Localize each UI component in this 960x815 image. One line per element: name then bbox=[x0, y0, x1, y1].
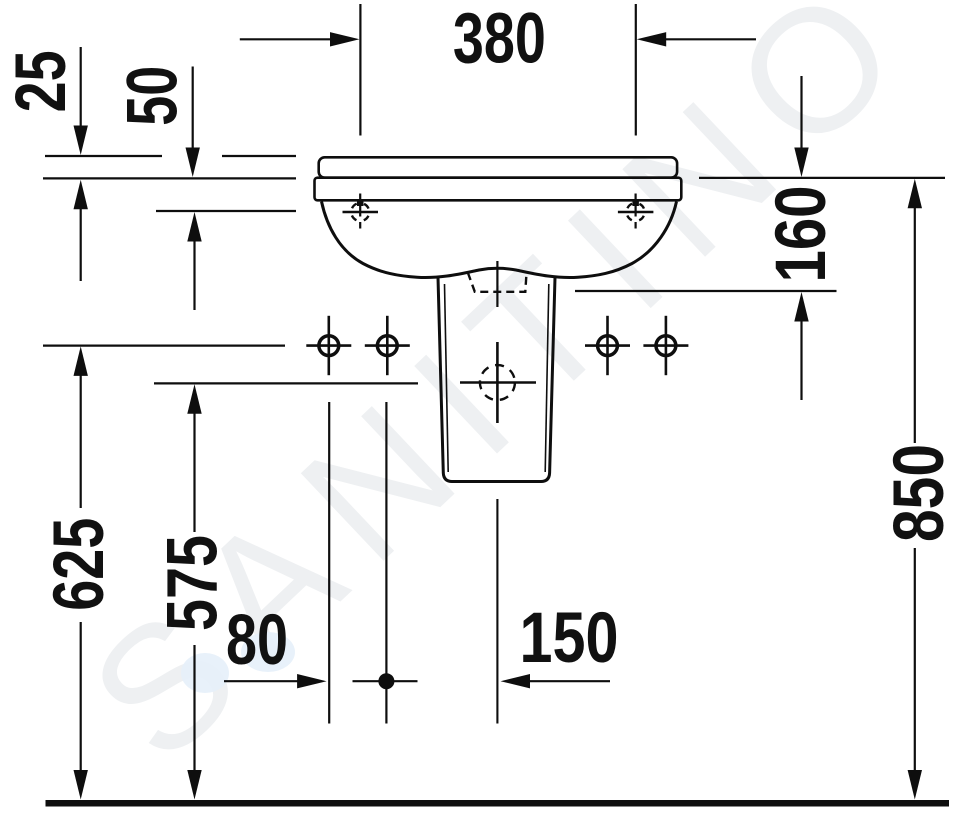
850 dim line lower bbox=[914, 548, 916, 772]
arrowhead 380 left bbox=[330, 32, 360, 46]
ext line L2 right of basin bbox=[699, 177, 945, 179]
fixing crosshair B bbox=[365, 316, 410, 375]
arrowhead 850 up bbox=[908, 179, 922, 209]
ext line L2 bbox=[43, 177, 296, 179]
dot bar line bbox=[353, 680, 418, 682]
svg-text:50: 50 bbox=[113, 66, 192, 126]
ext line L5 bbox=[154, 382, 418, 384]
svg-text:380: 380 bbox=[453, 0, 546, 79]
ext line L1 left bbox=[45, 155, 162, 157]
380 ext line left bbox=[359, 4, 361, 136]
380 arrow line left bbox=[240, 38, 332, 40]
ext line L6 right bbox=[575, 290, 837, 292]
arrowhead 380 right bbox=[637, 32, 667, 46]
575 dim line upper bbox=[193, 412, 195, 532]
fixing crosshair A bbox=[306, 316, 351, 375]
625 dim line upper bbox=[80, 374, 82, 508]
arrowhead 25 up bbox=[74, 180, 88, 210]
center line lower segment bbox=[496, 499, 498, 724]
pedestal inner accent right bbox=[545, 284, 549, 472]
svg-text:80: 80 bbox=[226, 601, 288, 680]
ext line L1 right bbox=[222, 155, 296, 157]
arrowhead 625 up bbox=[74, 346, 88, 376]
svg-text:575: 575 bbox=[153, 535, 232, 631]
ext line L4 fixing level bbox=[43, 345, 285, 347]
80 dim arrow line bbox=[224, 680, 298, 682]
arrowhead 150 left bbox=[501, 674, 531, 688]
fixing crosshair D bbox=[643, 316, 688, 375]
arrowhead 575 up bbox=[187, 384, 201, 414]
dimension dot bbox=[378, 673, 394, 689]
fixing ext line left2 bbox=[385, 402, 387, 724]
380 ext line right bbox=[635, 4, 637, 136]
arrowhead 160 up bbox=[794, 292, 808, 322]
arrowhead 50 up bbox=[187, 212, 201, 242]
575 dim line lower bbox=[193, 645, 195, 772]
watermark blue blob 1 bbox=[181, 653, 229, 693]
siphon dashed trapezoid bbox=[468, 272, 527, 292]
160 dim line lower tail bbox=[800, 320, 802, 400]
380 arrow line right bbox=[663, 38, 756, 40]
center line upper segment bbox=[496, 261, 498, 307]
fixing crosshair C bbox=[585, 316, 630, 375]
25 dim line lower tail bbox=[80, 207, 82, 281]
arrowhead 25 down bbox=[74, 126, 88, 156]
arrowhead 850 down bbox=[908, 770, 922, 800]
svg-text:625: 625 bbox=[40, 518, 119, 611]
50 dim line upper bbox=[192, 67, 194, 150]
drain crosshair horizontal bbox=[460, 381, 536, 384]
fixing ext line left1 bbox=[328, 402, 330, 724]
arrowhead 50 down bbox=[186, 148, 200, 178]
arrowhead 575 down bbox=[187, 770, 201, 800]
basin rim band bbox=[315, 178, 682, 201]
floor line bbox=[46, 800, 950, 807]
150 dim arrow line bbox=[528, 680, 610, 682]
svg-text:160: 160 bbox=[762, 186, 841, 283]
pedestal outline bbox=[438, 278, 555, 482]
50 dim line lower tail bbox=[193, 240, 195, 310]
basin top slab bbox=[319, 157, 677, 177]
basin bowl outline bbox=[322, 202, 677, 278]
pedestal inner accent left bbox=[445, 284, 449, 472]
watermark blue blob 2 bbox=[241, 632, 295, 672]
drain crosshair vertical bbox=[496, 342, 499, 423]
svg-text:850: 850 bbox=[880, 444, 959, 542]
anchor mark right bbox=[618, 194, 654, 229]
arrowhead 160 down bbox=[794, 148, 808, 178]
arrowhead 625 down bbox=[74, 770, 88, 800]
svg-text:150: 150 bbox=[520, 599, 619, 678]
svg-text:25: 25 bbox=[2, 50, 81, 112]
25 dim line upper bbox=[80, 47, 82, 128]
drain dashed circle bbox=[480, 365, 515, 400]
850 dim line upper bbox=[914, 206, 916, 443]
arrowhead 80 right bbox=[297, 674, 327, 688]
625 dim line lower bbox=[80, 622, 82, 772]
160 dim line upper bbox=[800, 76, 802, 149]
ext line L3 bbox=[156, 210, 296, 212]
anchor mark left bbox=[343, 194, 379, 229]
